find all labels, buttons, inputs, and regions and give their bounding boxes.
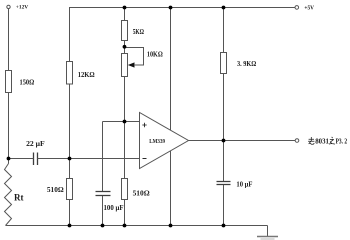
resistor 5K ohm — [122, 21, 128, 41]
junction: ground rail / 10uF — [222, 224, 226, 228]
op-amp U1 LM339 — [140, 113, 189, 169]
wire: plus node down to 100uF capacitor — [102, 122, 104, 192]
capacitor 22uF — [34, 153, 38, 166]
op-amp minus pin mark — [143, 158, 147, 160]
wire: pot bottom to plus node — [124, 77, 126, 122]
wire: plus input wire — [103, 121, 140, 123]
svg-text:22 μF: 22 μF — [26, 139, 45, 148]
wire: 100uF to ground rail — [102, 196, 104, 226]
wire: +12V rail down to 150 ohm resistor — [8, 9, 10, 71]
wire: LM339 supply bus — [170, 8, 172, 226]
junction: pot top node — [123, 45, 127, 49]
junction: output node — [222, 139, 226, 143]
wire: ground rail — [6, 225, 268, 227]
svg-text:12KΩ: 12KΩ — [78, 70, 95, 79]
wire: 10uF to ground rail — [223, 185, 225, 226]
wire: +5V top rail — [70, 8, 296, 62]
resistor 510 ohm (2) — [122, 179, 128, 200]
ground symbol — [267, 226, 269, 237]
junction: top rail / 3.9K column — [222, 6, 226, 10]
junction: minus node at 12K column — [68, 157, 72, 161]
svg-text:3. 9KΩ: 3. 9KΩ — [237, 59, 256, 68]
resistor 3.9K ohm — [221, 53, 227, 74]
op-amp plus pin mark — [142, 123, 146, 127]
svg-text:LM339: LM339 — [149, 139, 165, 145]
label: hanzi ZHI (of) — [329, 137, 335, 144]
capacitor 10uF — [217, 182, 231, 185]
wire: output wire to terminal — [189, 140, 296, 142]
junction: top rail / supply bus — [169, 6, 173, 10]
svg-text:10 μF: 10 μF — [236, 180, 252, 189]
wire: output node down to 10uF capacitor — [223, 141, 225, 182]
terminal +12V — [7, 5, 10, 8]
junction: divider node at left rail — [7, 157, 11, 161]
svg-text:P3. 2: P3. 2 — [336, 136, 348, 145]
svg-text:Rt: Rt — [14, 193, 24, 203]
junction: top rail / 5K column — [123, 6, 127, 10]
svg-text:510Ω: 510Ω — [47, 185, 64, 194]
wire: 510 ohm (1) to ground rail — [69, 200, 71, 226]
terminal +5V — [295, 6, 299, 10]
potentiometer 10K ohm body — [122, 54, 128, 77]
potentiometer wiper arrow — [128, 62, 135, 67]
svg-text:510Ω: 510Ω — [133, 188, 150, 197]
capacitor 100uF — [96, 192, 111, 196]
wire: wiper loop to pot top node — [125, 48, 144, 66]
wire: 150 ohm to divider node — [8, 93, 10, 164]
wire: divider node to 22uF — [9, 158, 34, 160]
svg-text:100 μF: 100 μF — [104, 203, 124, 212]
svg-text:10KΩ: 10KΩ — [147, 50, 163, 59]
svg-text:+12V: +12V — [16, 4, 29, 10]
svg-text:150Ω: 150Ω — [20, 78, 35, 87]
resistor 150 ohm — [6, 71, 12, 93]
wire: 22uF to minus input — [38, 158, 140, 160]
junction: ground rail / 100uF — [101, 224, 105, 228]
junction: plus node — [123, 120, 127, 124]
resistor 510 ohm (1) — [67, 179, 73, 200]
wire: 3.9K to output node — [223, 74, 225, 141]
svg-text:8031: 8031 — [315, 136, 329, 145]
junction: ground rail / supply bus — [169, 224, 173, 228]
label: hanzi QU (go to) — [308, 137, 314, 144]
junction: ground rail / 510 (2) — [123, 224, 127, 228]
junction: ground rail / 510 (1) — [68, 224, 72, 228]
wire: top rail to 3.9K resistor — [223, 8, 225, 53]
wire: top rail to 5K resistor — [124, 8, 126, 21]
wire: 12K bottom down through minus node to 510 ohm (1) — [69, 84, 71, 179]
svg-text:5KΩ: 5KΩ — [133, 27, 144, 36]
thermistor Rt — [5, 164, 12, 226]
resistor 12K ohm — [67, 62, 73, 85]
wire: plus node down to 510 ohm (2) — [124, 122, 126, 179]
svg-text:+5V: +5V — [304, 5, 314, 11]
wire: 510 ohm (2) to ground rail — [124, 200, 126, 226]
wire: 5K bottom to potentiometer top — [124, 41, 126, 54]
terminal output to 8031 P3.2 — [295, 139, 299, 143]
